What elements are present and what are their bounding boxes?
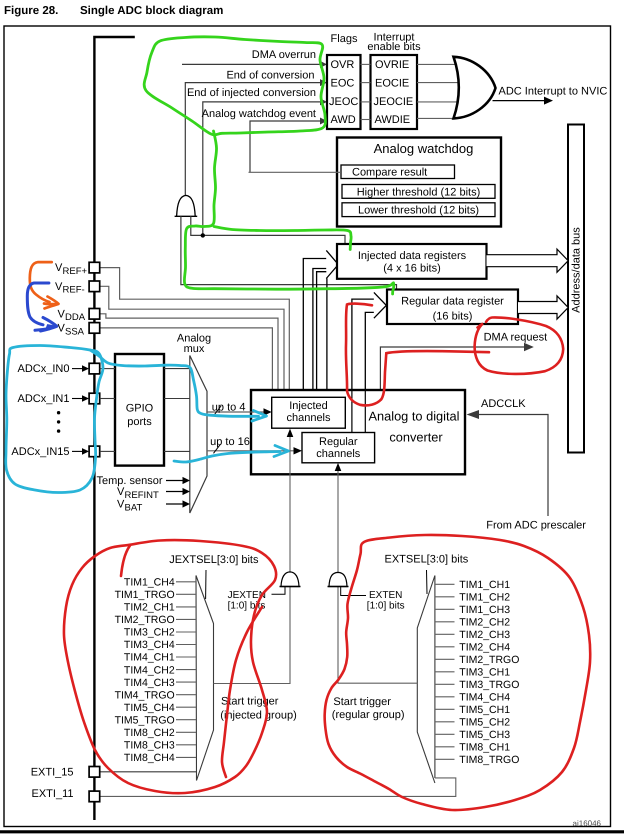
wire trigger input TIM2_TRGO <box>435 658 455 660</box>
wire ADCx_IN15 arrow <box>72 450 83 452</box>
svg-text:TIM5_CH1: TIM5_CH1 <box>459 704 510 716</box>
wire VBAT to mux <box>166 503 184 505</box>
svg-text:Analog watchdog: Analog watchdog <box>374 141 474 156</box>
wire trigger input TIM4_CH1 <box>176 656 196 658</box>
and-gate EXTEN <box>329 572 347 586</box>
svg-text:AWD: AWD <box>331 114 356 126</box>
annotation red big loop right (regular trigger) <box>325 535 591 810</box>
annotation cyan trace to regular channels <box>174 452 280 463</box>
svg-text:TIM4_CH1: TIM4_CH1 <box>124 652 175 664</box>
svg-text:Address/data bus: Address/data bus <box>571 227 583 313</box>
svg-text:TIM2_TRGO: TIM2_TRGO <box>459 654 519 666</box>
wire trigger input TIM8_CH3 <box>176 744 196 746</box>
svg-text:EOCIE: EOCIE <box>375 78 409 90</box>
svg-text:DMA request: DMA request <box>484 332 548 344</box>
svg-text:(injected group): (injected group) <box>220 710 296 722</box>
svg-text:TIM3_CH1: TIM3_CH1 <box>459 667 510 679</box>
wire trigger input TIM5_TRGO <box>176 719 196 721</box>
svg-text:Analog to digital: Analog to digital <box>368 409 459 424</box>
svg-text:channels: channels <box>316 448 361 460</box>
annotation red big loop left (injected trigger) <box>64 540 276 793</box>
wire trigger input TIM2_CH4 <box>435 646 455 648</box>
wire trigger input TIM5_CH4 <box>176 706 196 708</box>
svg-text:JEOC: JEOC <box>329 96 358 108</box>
wire VREF+ to converter <box>100 268 290 390</box>
port square VREF- <box>89 281 100 292</box>
svg-text:TIM8_CH3: TIM8_CH3 <box>124 740 175 752</box>
wire gate to injected-registers (JEOC junction line) <box>191 216 345 244</box>
bus line (left vertical) <box>94 37 134 820</box>
svg-text:converter: converter <box>389 430 443 445</box>
svg-text:EXTI_11: EXTI_11 <box>32 788 74 800</box>
svg-text:Single ADC block diagram: Single ADC block diagram <box>80 5 223 17</box>
svg-text:TIM4_CH4: TIM4_CH4 <box>459 692 510 704</box>
wire trigger input TIM8_CH2 <box>176 731 196 733</box>
svg-text:AWDIE: AWDIE <box>375 114 411 126</box>
svg-text:From ADC prescaler: From ADC prescaler <box>486 520 586 532</box>
wire trigger input TIM2_CH2 <box>435 621 455 623</box>
wire DMA request <box>380 347 526 390</box>
svg-text:enable bits: enable bits <box>367 41 421 53</box>
analog watchdog box <box>337 138 501 227</box>
wire trigger input TIM5_CH2 <box>435 721 455 723</box>
arrowhead into injected registers <box>326 250 338 278</box>
wire ADCx_IN0 gpio to mux <box>164 368 190 370</box>
ADC converter box <box>251 390 465 474</box>
svg-text:Regular: Regular <box>319 436 358 448</box>
port square VSSA <box>89 323 100 334</box>
svg-text:SSA: SSA <box>65 326 85 337</box>
wire VREF- to converter <box>100 286 284 390</box>
injected data registers box <box>337 244 487 279</box>
wire ADC interrupt to NVIC <box>493 100 547 102</box>
svg-text:TIM1_CH3: TIM1_CH3 <box>459 604 510 616</box>
wire VSSA to converter <box>100 328 273 390</box>
svg-text:ADCCLK: ADCCLK <box>481 398 526 410</box>
svg-text:TIM5_CH4: TIM5_CH4 <box>124 702 175 714</box>
analog mux trapezoid <box>190 356 207 514</box>
port square EXTI_11 <box>89 791 100 802</box>
wire mux to injected channels (up to 4) <box>207 411 265 413</box>
svg-text:TIM8_CH4: TIM8_CH4 <box>124 752 175 764</box>
slash up to 16 <box>214 445 221 454</box>
GPIO ports box <box>115 354 164 466</box>
bus wire converter to injected registers (outline) <box>303 259 326 391</box>
annotation red loop left pen tail <box>121 546 130 577</box>
svg-text:(regular group): (regular group) <box>332 709 405 721</box>
wire trigger input TIM3_CH4 <box>176 644 196 646</box>
wire trigger input TIM1_CH1 <box>435 583 455 585</box>
svg-text:TIM2_TRGO: TIM2_TRGO <box>115 614 175 626</box>
svg-text:TIM4_CH3: TIM4_CH3 <box>124 677 175 689</box>
svg-text:TIM5_TRGO: TIM5_TRGO <box>115 714 175 726</box>
bottom rule <box>0 830 624 833</box>
bus arrow regular register to bus <box>518 296 568 319</box>
svg-text:TIM1_TRGO: TIM1_TRGO <box>115 589 175 601</box>
svg-text:TIM2_CH4: TIM2_CH4 <box>459 642 510 654</box>
svg-text:Compare result: Compare result <box>352 167 427 179</box>
EXTSEL indicator line <box>426 570 429 594</box>
interrupt enable bits box <box>371 55 418 129</box>
wire JEXTEN label stub <box>272 587 286 595</box>
wire VREFINT to mux <box>166 491 184 493</box>
svg-text:TIM2_CH3: TIM2_CH3 <box>459 629 510 641</box>
wire ADCx_IN15 square to gpio <box>100 450 115 452</box>
wire ADCx_IN0 square to gpio <box>100 368 115 370</box>
wire trigger input TIM5_CH3 <box>435 733 455 735</box>
port square ADCx_IN1 <box>89 393 100 404</box>
injected channels box <box>272 397 346 428</box>
wire trigger input TIM1_TRGO <box>176 593 196 595</box>
svg-text:Injected: Injected <box>289 400 328 412</box>
wire Analog watchdog event to AWD flag <box>250 121 321 172</box>
ellipsis dots <box>57 411 60 414</box>
wire trigger input TIM8_CH1 <box>435 746 455 748</box>
compare result box <box>341 165 455 179</box>
svg-text:channels: channels <box>286 412 331 424</box>
wire ADCCLK from prescaler <box>479 415 549 517</box>
svg-text:TIM4_TRGO: TIM4_TRGO <box>115 689 175 701</box>
svg-text:Start trigger: Start trigger <box>333 696 391 708</box>
svg-text:ADCx_IN15: ADCx_IN15 <box>11 446 69 458</box>
svg-text:OVRIE: OVRIE <box>375 59 409 71</box>
svg-text:ports: ports <box>127 416 152 428</box>
wire trigger input TIM4_CH4 <box>435 696 455 698</box>
wire EXTI_11 <box>100 778 456 797</box>
svg-text:TIM8_TRGO: TIM8_TRGO <box>459 754 519 766</box>
wire ADCx_IN1 gpio to mux <box>164 398 190 400</box>
wire mux to regular channels (up to 16) <box>207 450 295 452</box>
svg-text:TIM1_CH4: TIM1_CH4 <box>124 577 175 589</box>
wires flags box to enable box rows <box>361 63 371 65</box>
svg-text:TIM8_CH1: TIM8_CH1 <box>459 742 510 754</box>
svg-text:EXTEN: EXTEN <box>369 590 402 601</box>
wire trigger input TIM2_CH3 <box>435 633 455 635</box>
wire left mux output to JEXTEN gate and injected channels <box>214 587 291 684</box>
svg-text:[1:0] bits: [1:0] bits <box>367 601 405 612</box>
wire EXTEN label stub <box>341 587 366 596</box>
wire DMA overrun to OVR flag <box>182 63 321 65</box>
wire End of conversion to EOC flag <box>185 83 321 196</box>
wire trigger input TIM3_TRGO <box>435 683 455 685</box>
or-gate G1 end-of-conversion combine <box>177 195 196 216</box>
annotation green branch to injected registers <box>214 227 351 250</box>
annotation green tail down to gate and regular register <box>184 131 393 294</box>
svg-text:up to 4: up to 4 <box>212 402 246 414</box>
svg-text:TIM3_CH4: TIM3_CH4 <box>124 639 175 651</box>
port square VDDA <box>89 309 100 320</box>
wire trigger input TIM4_CH3 <box>176 681 196 683</box>
wire gate to regular-register (long) <box>181 216 397 289</box>
or-gate U1 interrupt <box>454 57 496 119</box>
svg-text:ADC Interrupt to NVIC: ADC Interrupt to NVIC <box>499 86 608 98</box>
svg-text:TIM8_CH2: TIM8_CH2 <box>124 727 175 739</box>
arrowhead into regular register <box>374 292 386 318</box>
port square ADCx_IN15 <box>89 446 100 457</box>
wire right mux output to EXTEN gate and regular channels <box>338 587 417 684</box>
svg-text:TIM5_CH3: TIM5_CH3 <box>459 729 510 741</box>
svg-text:TIM3_TRGO: TIM3_TRGO <box>459 679 519 691</box>
svg-text:GPIO: GPIO <box>126 403 154 415</box>
port square ADCx_IN0 <box>89 363 100 374</box>
svg-text:REF-: REF- <box>63 285 85 296</box>
svg-text:TIM2_CH2: TIM2_CH2 <box>459 617 510 629</box>
annotation cyan loop around ADC inputs <box>6 346 103 493</box>
address/data bus box <box>568 125 584 453</box>
svg-text:OVR: OVR <box>331 59 355 71</box>
and-gate JEXTEN <box>281 572 299 587</box>
flags box <box>327 55 361 129</box>
svg-text:ADCx_IN0: ADCx_IN0 <box>18 363 70 375</box>
svg-text:Regular data register: Regular data register <box>401 296 504 308</box>
higher threshold box <box>342 185 495 199</box>
svg-text:EXTSEL[3:0] bits: EXTSEL[3:0] bits <box>385 554 469 566</box>
svg-text:TIM1_CH1: TIM1_CH1 <box>459 579 510 591</box>
svg-text:(16 bits): (16 bits) <box>433 311 473 323</box>
svg-text:JEXTSEL[3:0] bits: JEXTSEL[3:0] bits <box>169 554 259 566</box>
svg-text:DDA: DDA <box>65 312 86 323</box>
wire trigger input TIM1_CH2 <box>435 596 455 598</box>
svg-text:TIM3_CH2: TIM3_CH2 <box>124 627 175 639</box>
wire ADCx_IN1 square to gpio <box>100 398 115 400</box>
JEXTSEL indicator line <box>205 570 207 599</box>
wire trigger input TIM8_TRGO <box>435 758 455 760</box>
annotation red loop around DMA request <box>475 317 564 374</box>
wire EXTI_15 <box>100 771 196 773</box>
svg-text:JEOCIE: JEOCIE <box>374 96 414 108</box>
wire trigger input TIM8_CH4 <box>176 756 196 758</box>
svg-text:(4 x 16 bits): (4 x 16 bits) <box>383 263 440 275</box>
right trigger mux trapezoid (regular) <box>417 576 435 784</box>
annotation cyan trace to injected channels <box>90 350 259 416</box>
annotation red stroke along regular path <box>346 304 489 406</box>
svg-text:BAT: BAT <box>125 502 143 513</box>
svg-text:EOC: EOC <box>331 78 355 90</box>
regular data register box <box>387 290 518 325</box>
wire ADCx_IN15 gpio to mux <box>164 450 190 452</box>
svg-text:REFINT: REFINT <box>125 490 160 501</box>
lower threshold box <box>342 203 495 217</box>
svg-text:REF+: REF+ <box>63 266 88 277</box>
svg-text:End of conversion: End of conversion <box>226 70 314 82</box>
wire VDDA to converter <box>100 314 278 390</box>
bus arrow injected registers to bus <box>487 249 569 272</box>
bus wire converter to injected registers second (outline) <box>317 272 328 390</box>
wire trigger input TIM3_CH2 <box>176 631 196 633</box>
wire trigger input TIM4_CH2 <box>176 669 196 671</box>
port square VREF+ <box>89 262 100 273</box>
svg-text:Higher threshold (12 bits): Higher threshold (12 bits) <box>357 186 481 198</box>
wire trigger input TIM3_CH1 <box>435 671 455 673</box>
wire compare result to AWD staircase <box>249 171 342 173</box>
annotation blue arrow VREF- to VSSA <box>27 283 49 325</box>
svg-text:TIM2_CH1: TIM2_CH1 <box>124 602 175 614</box>
wire trigger input TIM4_TRGO <box>176 694 196 696</box>
svg-text:TIM5_CH2: TIM5_CH2 <box>459 717 510 729</box>
bus wire converter to regular register (outline) <box>352 299 374 432</box>
svg-text:Analog watchdog event: Analog watchdog event <box>202 108 316 120</box>
junction dot JEOC <box>201 233 205 237</box>
slash up to 4 <box>215 406 222 415</box>
wire ADCx_IN0 arrow <box>72 368 83 370</box>
port square EXTI_15 <box>89 767 100 778</box>
wire End of injected conversion to JEOC flag <box>203 102 321 236</box>
wire C inner segment regular register to regular channels <box>351 390 353 433</box>
wire trigger input TIM2_CH1 <box>176 606 196 608</box>
svg-text:Figure 28.: Figure 28. <box>4 5 58 17</box>
svg-text:up to 16: up to 16 <box>210 436 250 448</box>
annotation orange arrow VREF+ to VDDA <box>30 262 52 302</box>
svg-text:DMA overrun: DMA overrun <box>252 49 316 61</box>
annotation green loop around flag labels <box>144 37 325 135</box>
annotation red big loop left inner stroke <box>222 607 262 777</box>
wire ADCx_IN1 arrow <box>72 398 83 400</box>
wire trigger input TIM1_CH3 <box>435 608 455 610</box>
wire trigger input TIM1_CH4 <box>176 581 196 583</box>
wire trigger input TIM2_TRGO <box>176 618 196 620</box>
svg-text:EXTI_15: EXTI_15 <box>31 766 74 778</box>
svg-text:ai16046: ai16046 <box>573 819 602 828</box>
svg-text:TIM1_CH2: TIM1_CH2 <box>459 592 510 604</box>
svg-text:ADCx_IN1: ADCx_IN1 <box>18 393 70 405</box>
wire trigger input TIM5_CH1 <box>435 708 455 710</box>
wire temp sensor to mux <box>166 480 184 482</box>
left trigger mux trapezoid (injected) <box>196 576 214 781</box>
svg-text:mux: mux <box>184 343 205 355</box>
regular channels box <box>302 433 375 463</box>
svg-text:Lower threshold (12 bits): Lower threshold (12 bits) <box>358 205 479 217</box>
wires enable box to or-gate <box>417 63 459 65</box>
svg-text:Injected data registers: Injected data registers <box>358 250 467 262</box>
svg-text:Flags: Flags <box>331 33 358 45</box>
svg-text:Temp. sensor: Temp. sensor <box>96 475 162 487</box>
svg-text:End of injected conversion: End of injected conversion <box>187 87 316 99</box>
svg-text:TIM4_CH2: TIM4_CH2 <box>124 664 175 676</box>
